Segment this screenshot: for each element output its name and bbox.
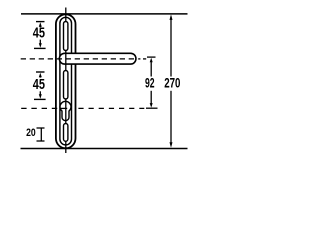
svg-text:20: 20	[26, 127, 36, 139]
svg-text:45: 45	[33, 77, 45, 93]
dim 270: down stem + arrow	[170, 91, 172, 145]
vertical centerline segment through keyhole	[65, 99, 67, 124]
svg-text:270: 270	[164, 75, 180, 91]
handle centerline (dashed)	[21, 58, 135, 60]
dim 92: top tick bar	[147, 56, 156, 58]
handle centerline dash beyond handle end	[138, 58, 140, 60]
backplate inner edge	[60, 17, 72, 145]
dim 45 upper: top tick bar	[36, 21, 45, 23]
dim 45 lower: top tick bar	[36, 71, 45, 73]
dim 20: bottom tick bar	[37, 140, 45, 142]
keyhole centerline right of plate	[78, 107, 144, 109]
dim 92: up arrow + stem	[150, 58, 153, 63]
bottom extension line	[21, 148, 188, 150]
top screw slot	[64, 22, 68, 51]
dim 20: stem	[40, 128, 42, 141]
lever handle	[59, 53, 135, 64]
keyhole centerline dash across circle	[61, 107, 67, 109]
keyhole centerline (dashed)	[21, 107, 57, 109]
handle centerline second dash beyond handle end	[143, 58, 146, 60]
dim 45 upper: bottom tick bar	[34, 47, 46, 49]
backplate outer edge	[56, 14, 76, 148]
dim 45 upper: down arrow	[39, 40, 41, 45]
vertical centerline segment above plate	[65, 8, 67, 22]
dim 270: up arrow + stem	[170, 14, 173, 20]
dim 45 lower: up arrow	[39, 73, 42, 78]
vertical centerline segment below plate	[65, 141, 67, 153]
middle screw slot	[64, 71, 68, 100]
svg-text:45: 45	[33, 26, 45, 42]
top extension line	[21, 13, 188, 15]
euro cylinder keyhole	[60, 101, 71, 120]
dim 92: down stem + arrow	[150, 91, 152, 106]
dim 45 lower: bottom tick bar	[34, 98, 46, 100]
dim 20: top tick bar	[37, 127, 45, 129]
vertical centerline segment through handle	[65, 50, 67, 70]
dim 92: bottom tick bar	[146, 107, 158, 109]
dim 45 lower: down arrow	[39, 91, 41, 95]
svg-text:92: 92	[145, 75, 155, 91]
dim 45 upper: up arrow	[39, 22, 42, 27]
bottom screw slot	[64, 124, 68, 142]
